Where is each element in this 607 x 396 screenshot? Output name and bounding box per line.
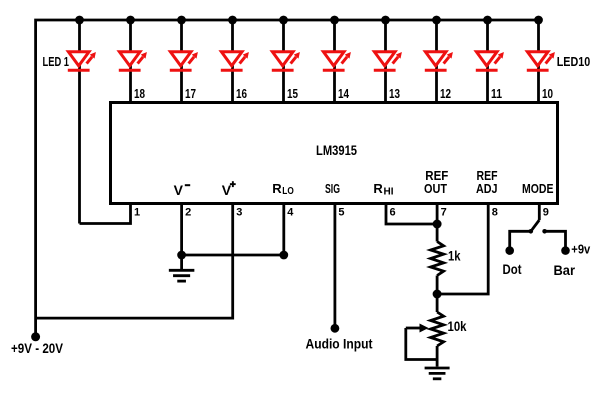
svg-text:LED10: LED10	[557, 55, 591, 69]
svg-text:SIG: SIG	[325, 181, 340, 196]
svg-text:LED 1: LED 1	[43, 55, 70, 69]
svg-text:1: 1	[134, 207, 140, 219]
svg-text:15: 15	[287, 87, 298, 101]
svg-text:7: 7	[441, 207, 447, 219]
svg-text:MODE: MODE	[522, 182, 554, 196]
svg-text:3: 3	[236, 207, 242, 219]
svg-text:+9v: +9v	[571, 242, 591, 257]
svg-text:Audio Input: Audio Input	[306, 337, 373, 352]
svg-text:+9V - 20V: +9V - 20V	[11, 341, 63, 356]
svg-text:OUT: OUT	[424, 182, 447, 196]
svg-text:10: 10	[542, 87, 553, 101]
svg-text:12: 12	[440, 87, 451, 101]
svg-text:5: 5	[338, 207, 344, 219]
svg-text:HI: HI	[384, 186, 394, 198]
svg-text:16: 16	[236, 87, 247, 101]
svg-text:Dot: Dot	[503, 262, 522, 277]
svg-text:REF: REF	[477, 169, 498, 183]
svg-text:V: V	[174, 182, 184, 198]
svg-text:ADJ: ADJ	[476, 182, 498, 196]
svg-text:2: 2	[185, 207, 191, 219]
svg-text:1k: 1k	[448, 249, 461, 264]
svg-text:REF: REF	[425, 169, 448, 183]
svg-text:11: 11	[491, 87, 502, 101]
svg-text:LO: LO	[282, 185, 294, 197]
svg-text:9: 9	[543, 207, 549, 219]
svg-text:14: 14	[338, 87, 349, 101]
svg-text:6: 6	[390, 207, 396, 219]
svg-text:18: 18	[134, 87, 145, 101]
svg-text:4: 4	[287, 207, 294, 219]
svg-text:R: R	[272, 181, 282, 196]
svg-text:LM3915: LM3915	[316, 143, 357, 158]
svg-text:R: R	[373, 181, 383, 196]
svg-text:13: 13	[389, 87, 400, 101]
svg-text:8: 8	[492, 207, 498, 219]
svg-text:Bar: Bar	[554, 263, 576, 278]
svg-text:10k: 10k	[448, 319, 467, 334]
svg-text:17: 17	[185, 87, 196, 101]
